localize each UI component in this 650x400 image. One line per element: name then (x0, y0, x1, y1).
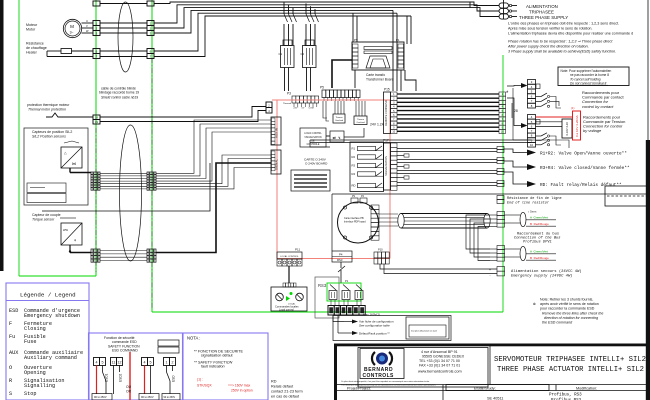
P5 wires to logic (323, 101, 327, 118)
bus drop cable 2 (520, 246, 526, 260)
ESD contact wires (102, 366, 104, 373)
svg-text:After power supply check the d: After power supply check the direction o… (507, 45, 589, 49)
P4 wire with break (340, 262, 342, 268)
right sheet border line (647, 0, 649, 140)
svg-text:250V in option: 250V in option (231, 389, 253, 393)
stair wires motor to top bus (154, 2, 470, 4)
centerline dashes right (95, 128, 97, 272)
AUX IN board (271, 117, 281, 145)
svg-text:blindage raccordé borne 19: blindage raccordé borne 19 (99, 91, 139, 95)
position sensor box (24, 128, 88, 205)
svg-text:Modification:: Modification: (576, 386, 597, 390)
svg-text:B Red/Rouge: B Red/Rouge (530, 222, 549, 226)
svg-text:Note: Retirer les 3 shunts fou: Note: Retirer les 3 shunts fournis, (540, 298, 593, 302)
RS3 box (315, 277, 339, 318)
svg-text:Transformer Board: Transformer Board (366, 78, 394, 82)
terminal stack contact group A (528, 80, 536, 85)
svg-text:Profibus, RS3: Profibus, RS3 (549, 393, 582, 398)
svg-text:Etude/Study:: Etude/Study: (474, 386, 496, 390)
relay block R1-R4 RD (350, 142, 384, 192)
P4 RS3 box (332, 251, 352, 262)
svg-text:5: 5 (150, 361, 152, 365)
svg-text:0-10V 4-20: 0-10V 4-20 (565, 122, 569, 136)
svg-text:OU: OU (126, 385, 132, 389)
connection arrow A (521, 83, 528, 88)
svg-text:2: 2 (172, 361, 174, 365)
bus terminals 2 (497, 246, 505, 250)
fuse green box (327, 283, 361, 301)
svg-text:Shield control cable nb19: Shield control cable nb19 (101, 96, 138, 100)
svg-text:Stop: Stop (24, 391, 36, 397)
torque cable thick route (156, 163, 271, 253)
svg-text:+: + (489, 268, 491, 272)
terminal block sensors left (91, 172, 100, 175)
motor enclosure green bottom (19, 275, 96, 277)
svg-text:ESD2: ESD2 (119, 373, 123, 382)
sensor board 1 (27, 183, 66, 193)
svg-text:B Red/Rouge: B Red/Rouge (530, 256, 549, 260)
logo outer box (358, 348, 488, 388)
svg-text:NOTA :: NOTA : (187, 336, 200, 341)
svg-text:L'ordre des phases en triphasé: L'ordre des phases en triphasé doit être… (508, 22, 619, 26)
svg-text:Moteur: Moteur (26, 23, 38, 27)
svg-text:↕ 5mm: ↕ 5mm (528, 210, 537, 214)
heater resistor (47, 50, 61, 52)
svg-text:Projet/Project:: Projet/Project: (347, 386, 371, 390)
supply verticals to P15 (392, 10, 394, 91)
svg-text:Remove the three links after c: Remove the three links after check the (542, 312, 603, 316)
local control box (271, 287, 307, 311)
transformer to P15 wires (400, 70, 402, 91)
svg-text:11: 11 (112, 361, 116, 365)
actuator green bottom (152, 311, 503, 313)
terminal column remote right (499, 92, 506, 96)
terminal block actuator heater (147, 49, 154, 54)
terminal block motor U V W (93, 21, 100, 26)
cable sheath ellipse (signal cable) (120, 125, 142, 261)
terminal block actuator top (147, 1, 154, 6)
svg-text:signalisation défaut: signalisation défaut (201, 354, 233, 358)
centerline dashes mid (151, 58, 153, 308)
svg-text:REMOTE COMMAND: REMOTE COMMAND (384, 100, 388, 126)
contactor output wires (284, 68, 286, 92)
label block (291, 170, 330, 191)
svg-text:End of line resistor: End of line resistor (507, 201, 549, 206)
svg-text:COM: COM (308, 108, 313, 110)
svg-text:CONTROLS: CONTROLS (363, 373, 395, 379)
svg-text:ESD COMMAND: ESD COMMAND (112, 349, 138, 353)
svg-text:pour raccorder la commande ESD: pour raccorder la commande ESD (540, 307, 595, 311)
wire to local box (288, 266, 290, 283)
svg-text:Interface PDP board: Interface PDP board (344, 221, 366, 224)
profibus top connectors (351, 198, 358, 203)
svg-text:U: U (86, 19, 88, 23)
ESD voltage boxes (92, 394, 112, 400)
svg-text:ESD: ESD (9, 308, 18, 314)
cable sheath ellipse (motor cable) (118, 2, 133, 72)
torque sensor T1 (61, 223, 82, 245)
svg-text:R1: R1 (352, 147, 356, 151)
svg-text:LOCAL CONTROL: LOCAL CONTROL (280, 255, 299, 258)
terminal block heater 6 7 (93, 49, 100, 54)
svg-text:P15: P15 (384, 88, 390, 92)
svg-text:RS3: RS3 (318, 283, 327, 288)
svg-text:Alimentation secours (24VCC 4W: Alimentation secours (24VCC 4W) (511, 269, 582, 274)
svg-text:↯: ↯ (338, 136, 341, 140)
svg-text:contact 21-23 ferm: contact 21-23 ferm (271, 390, 303, 394)
svg-text:O 240V BOARD: O 240V BOARD (305, 162, 328, 166)
svg-text:AUX: AUX (9, 350, 19, 356)
svg-text:Thermo: Thermo (336, 117, 344, 119)
svg-text:5: 5 (102, 361, 104, 365)
svg-text:Ce plan étant notre propriété,: Ce plan étant notre propriété, il ne peu… (341, 380, 430, 383)
svg-text:90 to 250V: 90 to 250V (141, 395, 154, 399)
svg-text:F: F (9, 321, 12, 327)
ribbon wires P15 (397, 93, 499, 95)
svg-text:P1: P1 (345, 279, 349, 283)
svg-text:Opening: Opening (24, 370, 46, 376)
config inner box (406, 317, 449, 339)
terminal stack contact group B (528, 115, 536, 120)
svg-text:SERVOMOTEUR TRIPHASEE INTELLI+: SERVOMOTEUR TRIPHASEE INTELLI+ SIL2 (494, 356, 646, 364)
stack A switches (536, 96, 542, 98)
ESD safety function box (89, 333, 183, 400)
svg-text:Après mise sous tension vérifi: Après mise sous tension vérifier le sens… (508, 27, 592, 31)
dashed resistor box (605, 186, 650, 206)
red control wire horizontal (272, 99, 390, 101)
svg-text:www.bernardcontrols.com: www.bernardcontrols.com (418, 370, 462, 374)
svg-text:Résistance de fin de ligne: Résistance de fin de ligne (507, 196, 562, 201)
wire motor-cable runs (100, 3, 147, 5)
svg-text:95505 GONESSE CEDEX: 95505 GONESSE CEDEX (422, 355, 465, 359)
svg-text:A Green/Vert: A Green/Vert (530, 216, 548, 220)
voltage connector block (562, 119, 572, 138)
svg-text:Emergency supply (24VDC 4W): Emergency supply (24VDC 4W) (511, 274, 573, 279)
svg-text:RD: RD (352, 184, 356, 188)
svg-text:R4: R4 (352, 172, 356, 176)
svg-text:Thermo: Thermo (357, 119, 365, 121)
fuses (330, 285, 336, 291)
motor enclosure green boundary right (95, 0, 97, 276)
terminal block motor side top (93, 1, 100, 6)
svg-text:Fu: Fu (9, 334, 15, 340)
emergency supply wires (380, 264, 497, 269)
sensor bundle wires (100, 172, 147, 174)
config arrow 2 (352, 331, 358, 335)
svg-text:3~: 3~ (70, 31, 74, 35)
svg-text:Capteurs de position SIL2: Capteurs de position SIL2 (32, 130, 72, 134)
relay contact terminals (497, 147, 504, 150)
svg-text:P11: P11 (295, 248, 300, 252)
contactor switch drops (283, 2, 285, 14)
svg-text:A Green/Vert: A Green/Vert (530, 250, 548, 254)
svg-text:24V~: 24V~ (293, 108, 299, 110)
svg-text:WW: WW (63, 228, 68, 232)
terminal block torque left (91, 249, 100, 252)
svg-text:Heater: Heater (26, 51, 38, 55)
svg-text:en cas de défaut: en cas de défaut (271, 395, 300, 399)
svg-text:RS3: RS3 (337, 258, 343, 262)
svg-text:Do not connect terminal 8: Do not connect terminal 8 (570, 81, 607, 85)
svg-text:P10: P10 (378, 248, 383, 252)
svg-text:3 Phase supply shall be availa: 3 Phase supply shall be available to ach… (508, 50, 616, 54)
position sensor S1 (61, 147, 82, 168)
signal wires to relay terminals (397, 148, 497, 150)
svg-text:Phase rotation has to be respe: Phase rotation has to be respected : 1,2… (508, 40, 613, 44)
svg-text:Signalling: Signalling (24, 383, 55, 389)
sub connector thermo 1 (333, 114, 345, 123)
note box self holding (558, 67, 629, 86)
top bus extra line (154, 3, 160, 5)
bus daisy chain (466, 215, 490, 249)
svg-text:Max 160V(1): Max 160V(1) (363, 313, 380, 317)
svg-text:protection thermique moteur: protection thermique moteur (27, 103, 70, 107)
red control wire vertical left (276, 100, 278, 258)
svg-text:SIGNALISATION: SIGNALISATION (384, 156, 388, 176)
transformer secondary thick wire (332, 60, 352, 88)
bus terminals 1 (497, 212, 505, 216)
svg-text:SE 40511: SE 40511 (487, 397, 503, 400)
title block frame (334, 344, 650, 347)
svg-text:ψ: ψ (74, 238, 76, 242)
wires board to tube (379, 213, 398, 215)
config outer box (333, 316, 451, 341)
svg-text:FAX +33 (0)1 34 07 71 01: FAX +33 (0)1 34 07 71 01 (419, 364, 460, 368)
svg-text:R2: R2 (352, 155, 356, 159)
motor enclosure green boundary left (18, 0, 20, 276)
svg-text:1: 1 (166, 361, 168, 365)
svg-text:See configuration table: See configuration table (359, 324, 390, 328)
red voltage box (573, 111, 581, 140)
svg-text:Profibus DPV1: Profibus DPV1 (523, 240, 552, 245)
svg-text:Relais défaut: Relais défaut (271, 385, 294, 389)
svg-text:RD: Fault relay/Relais défaut*: RD: Fault relay/Relais défaut** (540, 183, 622, 188)
svg-text:P17: P17 (383, 139, 389, 143)
svg-text:LOGIC CONTRL: LOGIC CONTRL (304, 133, 322, 135)
red control wire vertical right (389, 100, 391, 259)
svg-text:(1) :: (1) : (197, 378, 203, 382)
arrow R1+R2 (504, 149, 527, 153)
bottom row (337, 384, 647, 386)
profibus interface board (338, 202, 379, 243)
svg-text:TEL +33 (0)1 34 07 71 00: TEL +33 (0)1 34 07 71 00 (419, 359, 460, 363)
svg-text:4: 4 (96, 361, 98, 365)
svg-text:M: M (70, 24, 74, 29)
svg-text:R: R (9, 378, 12, 384)
terminal block thermal 18 19 (93, 115, 100, 120)
svg-text:Inscription défaut/alarm on al: Inscription défaut/alarm on alarm (411, 330, 438, 333)
svg-text:ALIMENTATION: ALIMENTATION (526, 4, 558, 9)
ESD red wires (96, 366, 98, 395)
arrow RD (504, 172, 527, 184)
svg-text:ESD: ESD (172, 375, 176, 382)
bernard controls logo (360, 349, 404, 379)
config arrow 1 (352, 320, 358, 324)
motor M1 (63, 19, 81, 37)
svg-text:Local control: Local control (279, 308, 294, 312)
svg-text:commande ESD: commande ESD (112, 340, 137, 344)
svg-text:R3: R3 (352, 164, 356, 168)
terminal block sensors right (147, 172, 156, 175)
SIGNAL board (271, 150, 281, 174)
svg-text:Capteur de couple: Capteur de couple (32, 213, 61, 217)
sub connector thermo 2 (354, 116, 367, 125)
end of line resistor terminals (497, 196, 504, 200)
svg-text:SIL2 Position sensors: SIL2 Position sensors (32, 135, 66, 139)
stack B switches (536, 135, 542, 137)
ESD header plates (158, 340, 179, 346)
svg-text:the ESD command: the ESD command (542, 321, 573, 325)
svg-text:Auxiliary command: Auxiliary command (24, 355, 77, 361)
svg-text:10: 10 (530, 143, 534, 147)
svg-text:C2: C2 (301, 52, 305, 56)
svg-text:P3: P3 (287, 92, 291, 96)
actuator green boundary right (502, 55, 504, 312)
terminal block actuator U V W (147, 21, 154, 26)
terminal 2-4 aux (266, 102, 272, 108)
motor wires U V W (82, 22, 94, 24)
svg-text:Thermal: Thermal (283, 102, 292, 105)
svg-text:THREE PHASE SUPPLY: THREE PHASE SUPPLY (519, 15, 568, 20)
svg-text:Fuse: Fuse (24, 339, 36, 345)
svg-text:28: 28 (514, 109, 518, 113)
profibus connector column (371, 205, 379, 209)
svg-text:fault indication: fault indication (201, 365, 225, 369)
svg-text:CONTROLE: CONTROLE (307, 144, 320, 146)
svg-text:Emergency shutdown: Emergency shutdown (24, 313, 80, 319)
terminal block torque right (147, 249, 156, 252)
logic control board (300, 128, 326, 147)
transformer primary drops (406, 16, 408, 44)
torque bundle wires (100, 250, 147, 252)
svg-text:Torque sensor: Torque sensor (32, 218, 55, 222)
svg-text:P4: P4 (339, 253, 343, 257)
svg-text:C1: C1 (279, 52, 283, 56)
contact section box (512, 88, 514, 140)
emergency supply terminals (497, 267, 505, 272)
svg-text:après avoir vérifié le sens de: après avoir vérifié le sens de rotation (540, 302, 599, 306)
left sheet edge bar (0, 0, 4, 271)
svg-text:V: V (86, 24, 88, 28)
actuator green boundary mid (151, 0, 153, 312)
enclosure bottom line (42, 163, 210, 211)
three phase supply connectors (499, 3, 509, 8)
svg-text:R1+R2: Valve Open/Vanne ouvert: R1+R2: Valve Open/Vanne ouverte** (540, 152, 627, 157)
thermal switch (46, 113, 93, 117)
svg-text:Thermal motor protection: Thermal motor protection (28, 108, 66, 112)
svg-text:L'alimentation triphasée devra: L'alimentation triphasée devra être disp… (508, 32, 633, 36)
svg-text:OR: OR (126, 390, 132, 394)
sensor wires to boards (156, 120, 271, 173)
svg-text:0 à 10V 4-20mA: 0 à 10V 4-20mA (575, 115, 579, 137)
arrow R3+R4 (504, 161, 527, 167)
NOTA box (183, 333, 268, 400)
svg-text:Motor: Motor (26, 28, 36, 32)
opto isolator (330, 131, 344, 142)
svg-text:ESD1: ESD1 (105, 373, 109, 382)
contactor C1 (283, 40, 292, 46)
svg-text:Closing: Closing (24, 326, 46, 332)
svg-text:S: S (9, 391, 12, 397)
bus pair wires (310, 139, 531, 141)
svg-text:R3+R4: Valve closed/Vanne ferm: R3+R4: Valve closed/Vanne fermée** (540, 166, 630, 171)
supply arrow wires (470, 2, 499, 6)
svg-text:control by contact: control by contact (582, 104, 614, 109)
svg-text:de chauffage: de chauffage (26, 46, 47, 50)
bus cable tube (401, 213, 487, 215)
svg-text:VISUALISATION: VISUALISATION (304, 136, 322, 139)
svg-text:⊗: ⊗ (532, 302, 536, 306)
sensor wire down (69, 168, 71, 173)
legend box (6, 283, 89, 400)
profibus section top line (332, 193, 650, 195)
svg-text:90 to 250V: 90 to 250V (94, 395, 107, 399)
unused stubs (397, 155, 404, 157)
svg-text:Défaut/Fault position **: Défaut/Fault position ** (359, 332, 391, 336)
svg-text:12: 12 (118, 361, 122, 365)
svg-text:⋈: ⋈ (72, 162, 76, 166)
svg-text:(1): (1) (571, 106, 574, 110)
svg-text:==> 160V max: ==> 160V max (228, 384, 250, 388)
output terminal row (328, 306, 334, 316)
wires terminal row to config (333, 316, 344, 322)
right sheet edge bar (646, 140, 650, 400)
svg-text:STK/SQX: STK/SQX (197, 384, 212, 388)
svg-text:RD: RD (271, 380, 277, 384)
svg-text:TRIPHASEE: TRIPHASEE (529, 9, 554, 14)
svg-text:△: △ (64, 151, 67, 155)
torque sensor wire (69, 245, 71, 251)
svg-text:90 to 250V: 90 to 250V (164, 396, 176, 399)
svg-text:4 rue d'Arsonval BP 91: 4 rue d'Arsonval BP 91 (421, 350, 458, 354)
svg-text:Carte transfo: Carte transfo (366, 73, 385, 77)
sensor board 2 (27, 194, 66, 203)
svg-text:direction of rotation for conn: direction of rotation for connecting (544, 316, 598, 320)
svg-text:4: 4 (144, 361, 146, 365)
connection arrow B (521, 123, 528, 128)
svg-text:24V 1.2A: 24V 1.2A (370, 123, 385, 127)
svg-text:O: O (9, 365, 12, 371)
svg-text:Résistance: Résistance (26, 42, 44, 46)
svg-text:Overload: Overload (356, 122, 364, 124)
heater wire 2 (46, 51, 48, 57)
contactor C2 (305, 40, 314, 46)
red control wire bottom (277, 258, 390, 260)
ESD terminals (94, 358, 100, 366)
bus drop cable 1 (520, 212, 526, 226)
svg-text:Légende / Legend: Légende / Legend (20, 292, 76, 299)
svg-text:Overload: Overload (335, 120, 343, 122)
svg-text:by voltage: by voltage (583, 128, 602, 133)
svg-text:P5: P5 (320, 86, 324, 90)
svg-text:THREE PHASE ACTUATOR INTELLI+: THREE PHASE ACTUATOR INTELLI+ SIL2 (497, 366, 644, 374)
thermal wires to AUX board (100, 107, 266, 118)
